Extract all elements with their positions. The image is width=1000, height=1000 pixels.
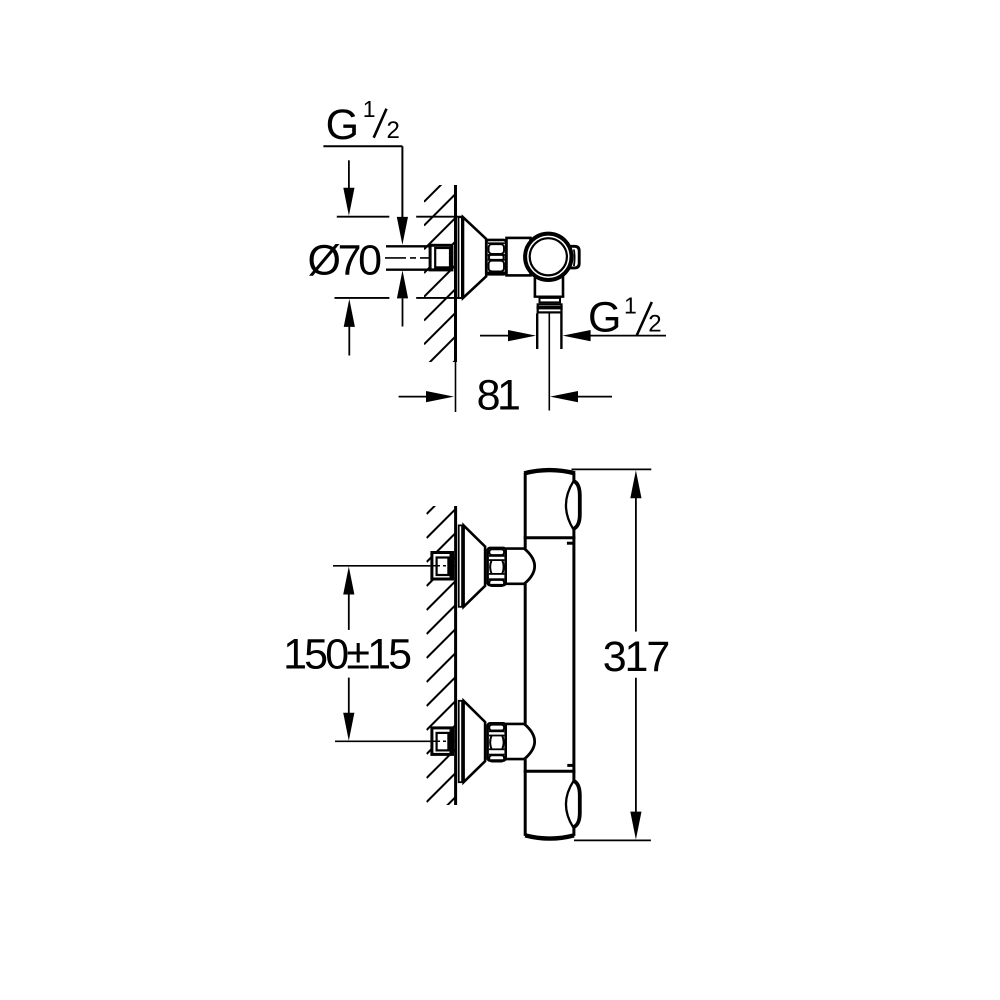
svg-text:G: G (326, 101, 359, 149)
svg-text:Ø70: Ø70 (308, 236, 383, 284)
svg-text:1: 1 (624, 293, 637, 319)
svg-text:2: 2 (387, 117, 400, 144)
svg-text:150±15: 150±15 (283, 631, 412, 679)
svg-text:2: 2 (648, 311, 661, 338)
svg-text:1: 1 (363, 96, 376, 122)
svg-text:317: 317 (603, 633, 671, 681)
svg-text:81: 81 (477, 372, 521, 420)
svg-text:G: G (588, 294, 621, 342)
